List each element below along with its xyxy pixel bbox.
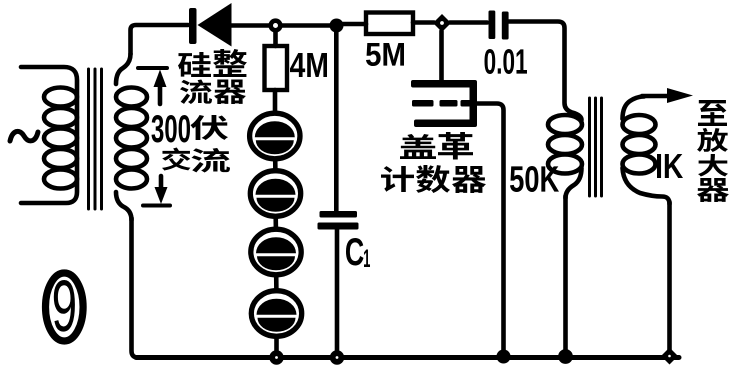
transformer T1 primary winding xyxy=(21,67,77,203)
transformer T1 core xyxy=(89,69,102,209)
wire: T2 secondary bottom to bus xyxy=(667,202,672,353)
wire: C2 to T2 primary (top right corner) xyxy=(509,22,582,121)
voltage stabilizer tube V1 xyxy=(250,113,300,159)
label 4M xyxy=(290,53,327,77)
voltage stabilizer tube V3 xyxy=(251,229,301,275)
wire: V2 to V3 xyxy=(273,217,278,230)
transformer T2 primary winding xyxy=(548,115,582,198)
Geiger-Muller tube xyxy=(411,80,477,127)
capacitor C2 0.01 xyxy=(489,11,509,40)
label Geiger counter line2 xyxy=(381,165,486,193)
dimension tick bottom xyxy=(143,204,170,208)
wire: node C to capacitor C2 xyxy=(450,20,487,25)
voltage stabilizer tube V2 xyxy=(250,171,300,217)
wire: node B to resistor R2 xyxy=(343,22,366,27)
label 50K xyxy=(510,166,559,192)
dimension arrow down xyxy=(155,176,168,204)
figure number 9 xyxy=(46,273,84,341)
wire: V4 to bottom bus xyxy=(274,337,279,355)
transformer T2 secondary winding xyxy=(623,97,670,205)
wire: R2 to node C xyxy=(413,20,434,25)
wire: V1 to V2 xyxy=(273,159,278,171)
label silicon rectifier line1 xyxy=(178,49,247,77)
diode D1 silicon rectifier xyxy=(189,3,232,47)
wire: GM tube anode to bottom bus xyxy=(475,104,504,355)
label 300V xyxy=(152,115,228,143)
junction: T2 secondary / bus xyxy=(661,348,678,365)
label 5M xyxy=(366,43,404,66)
label AC (jiaoliu) xyxy=(162,147,230,172)
dimension arrow up xyxy=(154,70,167,105)
dimension tick top xyxy=(138,66,167,70)
wire: node A to resistor R1 xyxy=(273,31,278,47)
label Geiger counter line1 xyxy=(400,132,473,160)
wire: diode to node A xyxy=(232,23,270,28)
capacitor C1 xyxy=(318,211,359,230)
transformer T1 secondary winding xyxy=(116,54,147,220)
wire: R1 to stabilizer V1 xyxy=(273,90,278,112)
wire: C1 down to bottom bus xyxy=(335,230,340,355)
wire: T1 secondary top riser to diode xyxy=(131,25,189,54)
resistor R1 4M xyxy=(265,46,288,90)
wire: node A to node B xyxy=(282,23,331,28)
bottom bus wire xyxy=(136,355,679,360)
wire: T2 primary bottom to bus xyxy=(563,196,568,353)
junction: GM anode / bus xyxy=(497,350,511,364)
AC source symbol xyxy=(10,131,38,141)
transformer T2 core xyxy=(590,98,602,196)
label C1 xyxy=(346,238,370,267)
label to-amplifier column xyxy=(697,100,729,202)
voltage stabilizer tube V4 xyxy=(251,291,301,337)
junction: C1 / bus xyxy=(330,350,344,364)
wire: V3 to V4 xyxy=(274,275,279,291)
label silicon rectifier line2 xyxy=(180,80,246,104)
junction: T2 primary / bus xyxy=(558,349,573,364)
resistor R2 5M xyxy=(366,13,413,35)
junction node B xyxy=(330,19,344,33)
wire: node C down to GM tube xyxy=(439,31,444,80)
label 0.01 xyxy=(485,49,527,74)
wire: node B down to capacitor C1 xyxy=(334,32,339,211)
junction node C (diamond) xyxy=(433,14,451,32)
label 1K xyxy=(657,154,683,178)
wire: T1 secondary bottom riser xyxy=(132,218,139,358)
output arrow to amplifier xyxy=(642,88,693,103)
junction node A (ring) xyxy=(271,21,281,31)
junction: stabilizer stack / bus xyxy=(269,350,283,364)
